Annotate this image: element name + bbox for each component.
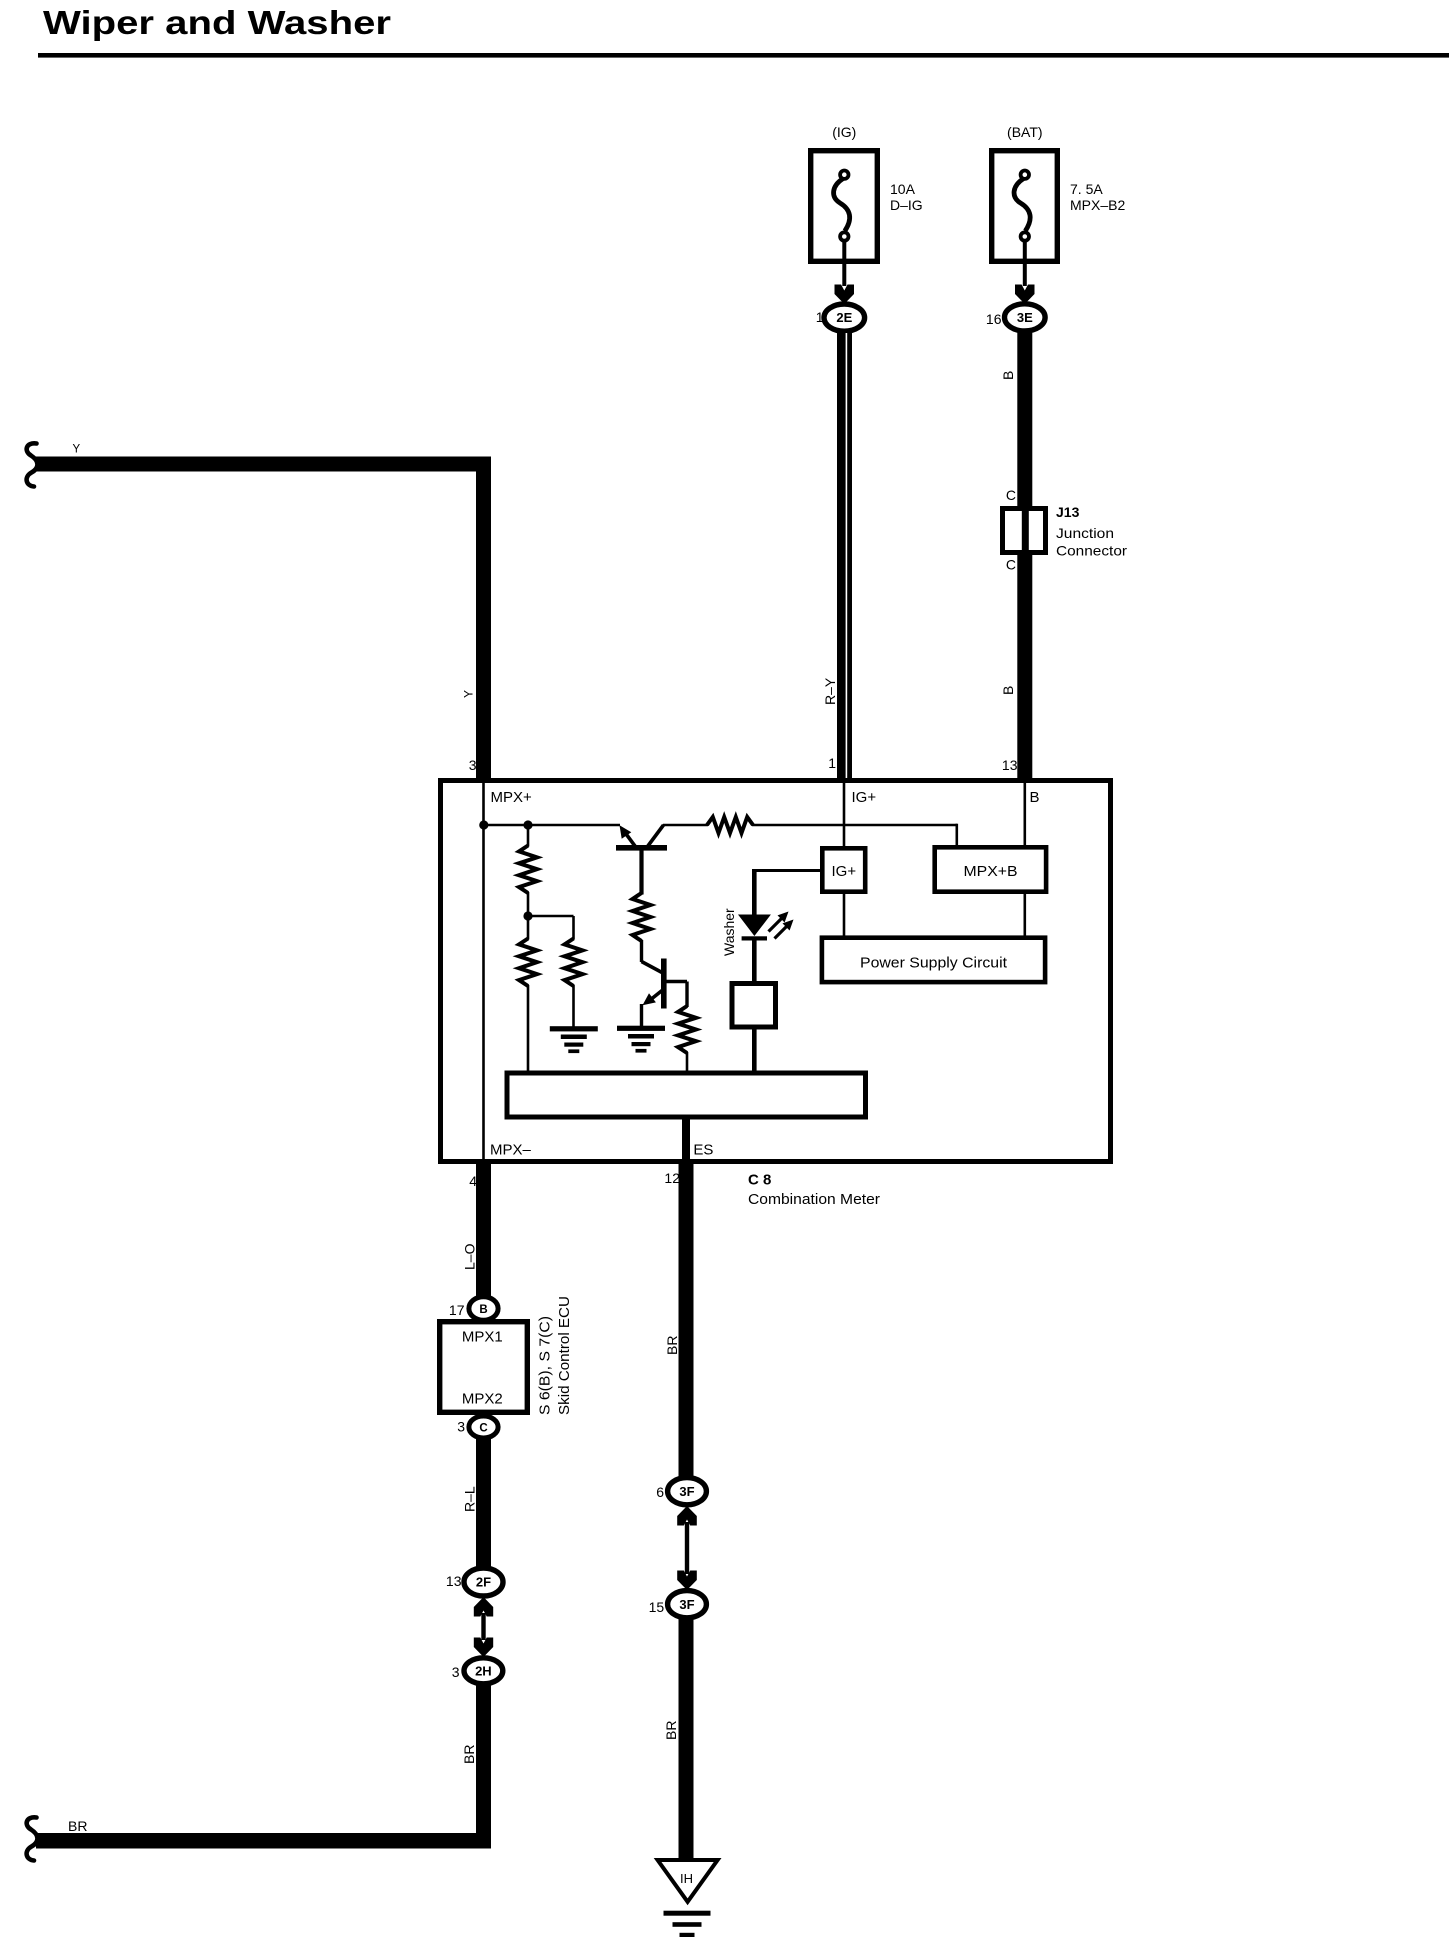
internal bus box (507, 1073, 866, 1117)
wire: 3F to 3F link (685, 1522, 689, 1574)
svg-text:3: 3 (452, 1664, 460, 1680)
wire: node C down to R3 (527, 916, 530, 940)
svg-text:2H: 2H (475, 1663, 492, 1678)
LED D1 cathode bar (742, 936, 767, 940)
svg-text:Washer: Washer (721, 908, 737, 956)
svg-text:3: 3 (457, 1419, 465, 1435)
svg-text:ES: ES (693, 1142, 713, 1159)
junction connector J13 (1003, 509, 1046, 553)
svg-text:MPX+B: MPX+B (964, 863, 1018, 880)
svg-text:C: C (1006, 557, 1016, 573)
svg-text:MPX2: MPX2 (462, 1391, 503, 1408)
svg-text:12: 12 (664, 1170, 680, 1186)
svg-text:B: B (1000, 371, 1016, 380)
transistor Q1 emitter arrow (620, 825, 632, 839)
resistor R5 (678, 1006, 696, 1053)
svg-text:13: 13 (1002, 757, 1018, 773)
wire B (3E to J13) (1017, 330, 1032, 506)
arrow down into 2H (474, 1638, 493, 1658)
svg-text:MPX–B2: MPX–B2 (1070, 197, 1125, 213)
svg-text:D–IG: D–IG (890, 197, 923, 213)
connector 3E (1005, 304, 1046, 331)
resistor R2 (565, 939, 583, 987)
svg-text:BR: BR (664, 1336, 680, 1355)
node junction dot C (523, 911, 532, 920)
svg-text:17: 17 (449, 1302, 465, 1318)
arrow up into 2F (474, 1597, 493, 1617)
svg-text:C: C (479, 1423, 487, 1435)
svg-text:Junction: Junction (1056, 525, 1114, 541)
wire: R3 down to internal bus box (527, 985, 530, 1072)
resistor R6 (horizontal) (707, 817, 753, 833)
wire: fuse F2 lead down (1023, 241, 1027, 286)
svg-text:Y: Y (462, 690, 476, 698)
transistor Q1 base bar (616, 845, 667, 851)
internal block Power Supply Circuit (822, 938, 1045, 982)
wire: box down to internal bus (752, 1029, 757, 1072)
wire: interior horizontal bus (left segment) (482, 824, 620, 827)
transistor Q1 collector (648, 825, 664, 847)
wire BR horizontal to left (36, 1833, 491, 1849)
svg-text:C: C (1006, 487, 1016, 503)
wire Y horizontal (36, 457, 491, 472)
svg-text:S 6(B), S 7(C): S 6(B), S 7(C) (538, 1316, 554, 1415)
connector 2E (824, 304, 865, 331)
skid control ECU box (440, 1322, 528, 1413)
svg-text:Connector: Connector (1056, 543, 1127, 559)
svg-text:R–Y: R–Y (822, 677, 838, 705)
wire Y vertical to pin 3 (476, 457, 491, 781)
svg-text:Power Supply Circuit: Power Supply Circuit (860, 955, 1008, 972)
internal block IG+ (822, 848, 865, 891)
internal component box (washer driver) (732, 984, 776, 1028)
svg-text:BR: BR (663, 1721, 679, 1740)
svg-text:10A: 10A (890, 181, 916, 197)
svg-text:BR: BR (461, 1745, 477, 1764)
node junction dot A (479, 820, 488, 829)
wire: bus box down to pin ES (682, 1120, 690, 1162)
connector 2F (464, 1568, 503, 1596)
wire BR (pin 12 down) (679, 1164, 694, 1478)
arrow into connector 2E (835, 285, 855, 305)
svg-text:Skid Control ECU: Skid Control ECU (557, 1296, 573, 1415)
svg-text:3F: 3F (679, 1597, 694, 1612)
wire: MPX+B block down to power supply (1024, 893, 1027, 937)
svg-text:B: B (479, 1304, 487, 1316)
LED D1 washer (triangle) (738, 915, 771, 937)
wire BR (2H down) (476, 1684, 491, 1849)
svg-text:B: B (1000, 686, 1016, 695)
wire: LED cathode down to box (752, 940, 757, 982)
ground G1 (550, 1026, 598, 1031)
svg-text:3: 3 (469, 757, 477, 773)
ground IH bars (664, 1911, 711, 1916)
resistor R4 (633, 893, 651, 941)
arrow up into 3F (677, 1506, 697, 1526)
wire: 2F to 2H link (481, 1613, 485, 1640)
wire R-L (C down to 2F) (476, 1437, 491, 1569)
wire: interior MPX+ to MPX- vertical (482, 781, 485, 1162)
wire B (J13 to pin 13) (1017, 555, 1032, 778)
svg-text:IH: IH (680, 1871, 693, 1886)
wire: IG+ box to LED anode (754, 869, 820, 872)
svg-text:MPX–: MPX– (490, 1142, 532, 1159)
svg-text:IG+: IG+ (852, 789, 877, 806)
connector B (skid control ECU) (469, 1297, 498, 1321)
connector C (skid control ECU) (469, 1416, 498, 1438)
svg-text:2F: 2F (476, 1575, 491, 1590)
arrow down into lower 3F (677, 1571, 697, 1591)
transistor Q2 base lead (666, 980, 687, 983)
connector 3F (lower) (668, 1591, 707, 1618)
connector 3F (upper) (668, 1478, 707, 1505)
ground IH triangle (658, 1860, 718, 1902)
svg-text:C 8: C 8 (748, 1172, 771, 1189)
wire: R5 down to internal bus box (686, 1052, 689, 1072)
wire R-Y (2E to pin 1) (837, 330, 852, 778)
wire: Q1 collector down to R4 (639, 850, 643, 895)
svg-text:B: B (1030, 789, 1040, 806)
arrow into connector 3E (1015, 285, 1035, 305)
svg-text:(BAT): (BAT) (1007, 124, 1043, 140)
connector 2H (464, 1658, 503, 1684)
node junction dot B (523, 820, 532, 829)
wire: pin1 down to IG+ box (843, 781, 846, 848)
wire: corner down into MPX+B (955, 824, 958, 847)
wire: node B down to R1 (527, 825, 530, 847)
wire: pin13 down to MPX+B box (1024, 781, 1027, 848)
svg-text:13: 13 (446, 1573, 462, 1589)
combination meter C8 box (441, 781, 1111, 1162)
svg-text:J13: J13 (1056, 504, 1080, 520)
wire break symbol (left end of Y wire) (27, 443, 38, 486)
wire: R4 down to Q2 (640, 940, 643, 962)
svg-text:IG+: IG+ (831, 863, 856, 880)
svg-text:MPX1: MPX1 (462, 1329, 503, 1346)
resistor R3 (519, 939, 537, 987)
svg-text:Combination Meter: Combination Meter (748, 1191, 880, 1208)
wire: fuse F1 lead down (842, 241, 846, 286)
svg-text:Wiper and Washer: Wiper and Washer (43, 4, 391, 41)
wire BR (3F down to ground) (679, 1618, 694, 1861)
svg-text:L–O: L–O (461, 1243, 477, 1270)
svg-text:1: 1 (828, 755, 836, 771)
svg-text:3F: 3F (679, 1484, 694, 1499)
svg-text:15: 15 (649, 1599, 665, 1615)
ground G2 (617, 1026, 665, 1031)
svg-text:Y: Y (73, 444, 81, 456)
svg-text:3E: 3E (1017, 310, 1033, 325)
svg-text:6: 6 (656, 1484, 664, 1500)
transistor Q2 emitter with arrow (647, 991, 662, 1003)
wire: R1 to node C (527, 892, 530, 917)
svg-text:BR: BR (68, 1818, 87, 1834)
svg-text:16: 16 (986, 311, 1002, 327)
wire break symbol (left end of BR wire) (27, 1817, 38, 1860)
LED light arrow 1 (769, 919, 782, 932)
wire: R2 down to ground G1 (572, 985, 575, 1027)
wire L-O (pin 4 down) (476, 1164, 491, 1298)
svg-text:(IG): (IG) (832, 124, 856, 140)
svg-text:R–L: R–L (461, 1486, 477, 1512)
wire: interior horizontal (transistor to resistor) (663, 824, 708, 827)
svg-text:MPX+: MPX+ (491, 789, 533, 806)
internal block MPX+B (935, 847, 1046, 891)
wire: Q2 emitter down to ground G2 (640, 1004, 643, 1027)
svg-text:7. 5A: 7. 5A (1070, 181, 1103, 197)
LED light arrow 2 (775, 926, 788, 939)
wire: node C right branch (528, 915, 574, 918)
svg-text:2E: 2E (836, 310, 852, 325)
wire: interior horizontal (resistor to MPX+B) (752, 824, 957, 827)
transistor Q2 base bar (661, 959, 667, 1009)
wire: IG+ block down to power supply (843, 893, 846, 937)
resistor R1 (519, 846, 537, 894)
